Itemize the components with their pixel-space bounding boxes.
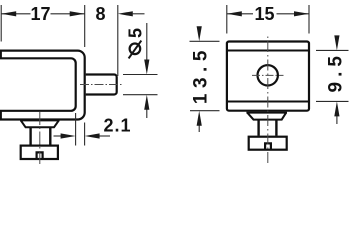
knob slot (right view) [265,143,271,150]
dim 9.5: outside arrows [336,37,338,40]
dim 15: extension lines [226,5,228,34]
dim 8: outside arrow right of pin-tip line + tail [118,11,133,16]
svg-text:15: 15 [254,4,274,24]
knurled knob (right view) [249,137,287,150]
dim 13.5: extension lines [190,40,220,42]
knob slot (left view) [37,152,43,159]
svg-text:8: 8 [95,4,105,24]
screw head trapezoid (left view) [20,120,60,127]
dim 2.1: extension lines (wall thickness) [75,113,77,146]
svg-text:2.1: 2.1 [103,115,131,135]
body front rectangle [227,42,309,111]
dim 13.5: outside arrows [198,27,200,29]
dim 17: left extension line [0,5,2,42]
svg-text:13.5: 13.5 [190,45,211,104]
pin centerline [80,84,122,86]
dim 9.5: extension lines [316,49,349,51]
pin (cylinder) on right face [86,75,117,95]
knurled knob (left view) [21,146,58,159]
screw shank lines (right view) [259,120,277,136]
dim 15: dimension line + arrows [227,13,253,15]
inner top line [228,50,308,52]
dim Ø5: vertical line + outside arrows [146,23,148,61]
hole circle [258,65,278,85]
svg-text:17: 17 [30,4,50,24]
dim 17: dimension line + arrows [1,13,30,15]
dim Ø5: extension lines (pin top/bottom extended right) [123,74,158,76]
vertical centerline (right view, through hole and screw) [267,37,269,167]
screw shank lines (left view) [31,128,51,145]
diameter symbol [130,44,141,55]
screw head trapezoid (right view) [246,113,287,120]
svg-text:5: 5 [125,28,145,38]
hole horizontal centerline [252,74,284,76]
dim 8: extension line at pin tip [117,5,119,76]
dim 17/8: extension line at outer face [84,5,86,47]
dim 2.1: outside arrows [54,135,63,137]
inner bottom line [228,101,308,103]
screw centerline (left view) [39,112,41,166]
bracket C-profile outline [1,51,85,120]
svg-text:9.5: 9.5 [325,51,346,92]
